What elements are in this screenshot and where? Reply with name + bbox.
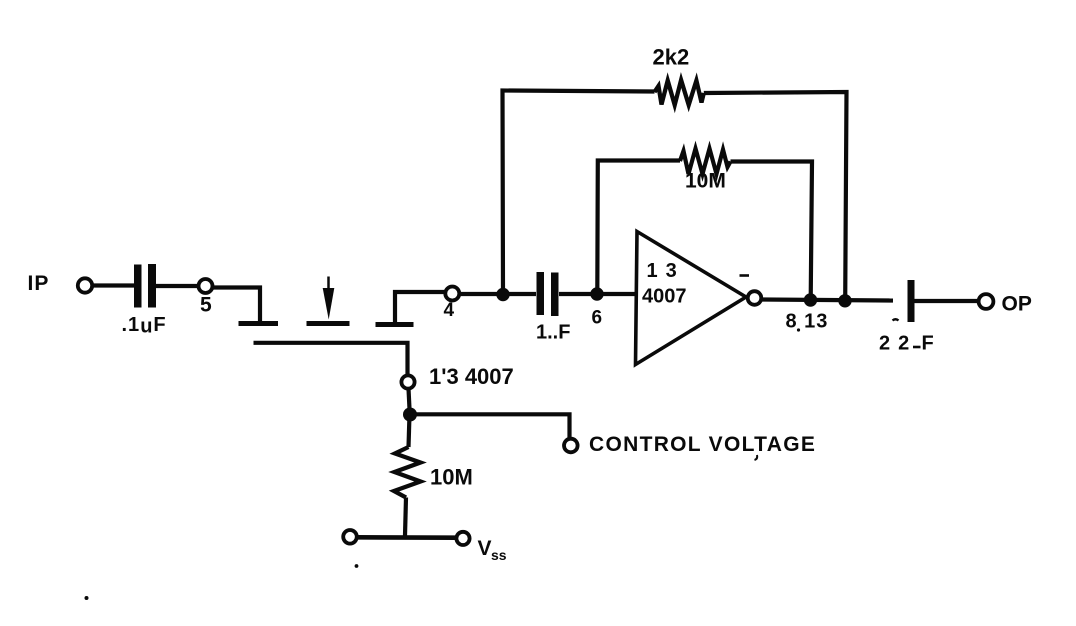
terminal IP — [28, 272, 93, 295]
svg-text:V: V — [478, 537, 492, 560]
resistor R1 2k2 feedback loop — [503, 45, 847, 301]
junction dot node 8/13 right — [838, 294, 851, 307]
svg-text:1..F: 1..F — [536, 322, 570, 344]
svg-text:2 2: 2 2 — [879, 333, 910, 355]
svg-text:2k2: 2k2 — [653, 45, 690, 70]
junction A dot — [496, 288, 509, 301]
svg-text:10M: 10M — [685, 170, 726, 193]
svg-text:CONTROL VOLTAGE: CONTROL VOLTAGE — [589, 433, 816, 456]
wire C2 to node 6 — [559, 292, 591, 296]
node 5 — [199, 279, 213, 317]
wire IP to C1 — [93, 283, 135, 287]
transistor Q1 drain bar — [376, 322, 414, 327]
speck noise below Vss — [355, 564, 359, 568]
svg-text:5: 5 — [200, 294, 212, 317]
capacitor C3 2.2uF — [879, 280, 934, 355]
wire junction B to control voltage terminal — [414, 414, 570, 438]
wire C1 to node 5 — [156, 284, 199, 288]
svg-text:10M: 10M — [430, 465, 473, 490]
svg-text:.1uF: .1uF — [122, 314, 167, 338]
svg-text:4007: 4007 — [642, 286, 687, 308]
resistor R3 10M vertical — [394, 415, 473, 536]
transistor Q1 substrate arrow — [323, 277, 335, 320]
wire gate circle to junction B — [409, 389, 410, 410]
terminal Vss right — [456, 532, 506, 563]
terminal CONTROL VOLTAGE — [564, 433, 816, 460]
op-amp U1 inverter 1 3 4007 — [636, 232, 762, 365]
svg-text:F: F — [922, 333, 934, 355]
svg-text:ss: ss — [491, 547, 507, 563]
capacitor C2 1uF — [536, 272, 570, 344]
wire node4 to junction A — [460, 292, 501, 296]
label 8 13 — [786, 311, 829, 333]
gate terminal circle — [401, 364, 513, 389]
svg-text:6: 6 — [592, 308, 603, 329]
node 6 junction dot — [590, 287, 603, 328]
resistor R2 10M feedback loop — [597, 149, 812, 301]
svg-text:8 13: 8 13 — [786, 311, 829, 333]
speck noise bottom left — [85, 596, 89, 600]
svg-text:IP: IP — [28, 272, 50, 295]
transistor Q1 body bar — [307, 321, 350, 326]
svg-text:1'3 4007: 1'3 4007 — [429, 364, 514, 389]
node 4 — [444, 287, 460, 322]
transistor Q1 gate line — [254, 343, 408, 376]
terminal OP — [979, 293, 1032, 316]
junction B dot — [403, 408, 417, 422]
wire drain up to node 4 — [395, 292, 445, 322]
junction dot node 8/13 left — [804, 293, 817, 306]
wire inverter output to C3 — [762, 300, 894, 301]
terminal Vss left — [343, 530, 357, 544]
wire Vss rail — [356, 535, 457, 540]
svg-text:1 3: 1 3 — [647, 260, 678, 282]
capacitor C1 .1uF — [122, 264, 167, 338]
wire node6 to inverter input — [597, 292, 637, 296]
wire node5 to source of Q1 — [213, 288, 261, 322]
svg-text:4: 4 — [444, 300, 455, 321]
svg-text:OP: OP — [1002, 293, 1032, 316]
wire C3 to OP terminal — [915, 299, 979, 303]
wire junction A to C2 — [503, 292, 536, 296]
transistor Q1 source bar — [239, 321, 279, 326]
